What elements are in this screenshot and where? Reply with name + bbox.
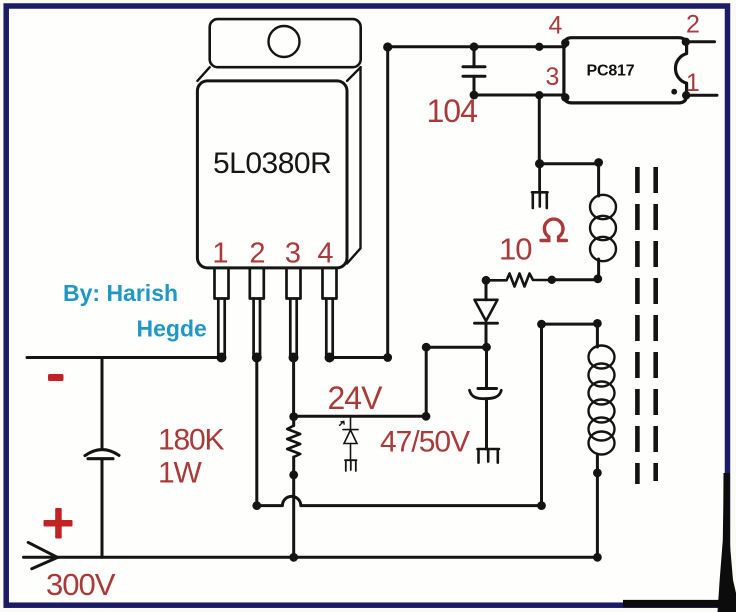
diode D1 lead bottom <box>485 323 488 347</box>
diode D1 lead top <box>485 280 488 300</box>
diode D1 cathode bar <box>475 322 498 325</box>
label minus <box>48 374 64 381</box>
border black right segment <box>723 473 729 612</box>
node pin3 stub <box>535 91 543 99</box>
node secondary winding top <box>593 319 602 328</box>
capacitor C2 47/50V top lead <box>485 347 488 388</box>
capacitor C3 straight plate <box>88 457 113 460</box>
node secondary top junction <box>537 320 546 329</box>
wire left cap branch <box>101 358 104 449</box>
wire vertical from node A down to pin4 rail <box>386 47 389 358</box>
wire optocoupler pin1 <box>687 94 717 97</box>
node pin4 rail <box>325 353 335 363</box>
node cap C1 top <box>470 42 479 51</box>
inductor L1 aux winding <box>597 163 600 196</box>
ground G3 symbol <box>478 449 500 463</box>
node secondary to bottom rail <box>593 553 602 562</box>
node pin2 rail <box>252 353 262 363</box>
node 24V rail left <box>289 412 298 421</box>
svg-text:47/50V: 47/50V <box>380 426 470 459</box>
capacitor C1 104 plates <box>463 67 485 76</box>
wire to secondary winding top <box>542 323 598 326</box>
node pin1 rail <box>217 353 227 363</box>
node U2 polarity dot <box>671 89 677 95</box>
resistor R1 bottom lead to node <box>292 457 295 475</box>
node A top junction <box>383 42 392 51</box>
ground G1 lead <box>538 164 541 193</box>
wire riser up from hop wire <box>540 324 543 506</box>
node aux winding top <box>594 158 603 167</box>
capacitor C2 plate curved <box>470 390 502 398</box>
capacitor C3 bottom lead <box>101 459 104 557</box>
capacitor C1 104 top lead <box>473 47 476 67</box>
node riser top <box>422 343 431 352</box>
IC U1 side depth edge <box>347 67 361 263</box>
IC U1 pin 3 lead <box>287 270 301 357</box>
svg-text:1: 1 <box>212 238 228 270</box>
label ohm symbol <box>541 219 566 240</box>
wire secondary bottom to rail <box>596 473 599 557</box>
svg-text:2: 2 <box>249 238 265 270</box>
svg-text:2: 2 <box>686 11 700 39</box>
diode D1 triangle <box>475 300 498 321</box>
node riser bottom right of pin4 <box>383 353 392 362</box>
resistor R2 10 ohm <box>486 274 552 287</box>
wire feedback node to aux winding top <box>540 162 599 165</box>
node resistor R2 left / diode top <box>482 276 491 285</box>
svg-text:3: 3 <box>285 238 301 270</box>
IC U1 body <box>197 81 347 268</box>
node secondary winding bottom <box>593 469 602 478</box>
node U2 corner pin4 <box>561 39 569 47</box>
node R1 bottom <box>289 471 298 480</box>
wire pin3 drop to 24V rail <box>292 358 295 417</box>
IC U1 tab-body slant right <box>347 67 361 81</box>
node U2 corner pin2 <box>682 38 690 46</box>
node pin2 drop bottom <box>252 501 261 510</box>
node U2 corner pin1 <box>682 91 690 99</box>
capacitor C2 bottom lead <box>485 399 488 449</box>
node R1 bottom rail <box>289 553 298 562</box>
svg-text:PC817: PC817 <box>587 63 635 80</box>
svg-text:104: 104 <box>427 93 478 129</box>
IC U1 pin 4 lead <box>323 270 337 357</box>
transformer core dashed line right <box>653 167 658 481</box>
svg-text:1W: 1W <box>158 457 202 490</box>
node hop wire right <box>537 501 546 510</box>
border black bottom segment <box>623 600 736 608</box>
wire bottom rail <box>24 556 598 559</box>
wire 24V rail <box>294 415 427 418</box>
wire pin2 drop <box>255 358 258 506</box>
capacitor C2 plate straight <box>478 387 497 390</box>
node cap C1 bottom <box>470 91 479 100</box>
wire negative rail to pin1 <box>27 356 222 359</box>
wire optocoupler pin3 line <box>474 94 565 97</box>
resistor R1 180K top lead <box>292 416 295 425</box>
node diode cathode junction <box>482 343 491 352</box>
svg-text:3: 3 <box>546 63 560 91</box>
wire aux winding bottom to resistor R2 <box>552 278 598 281</box>
node resistor R2 right <box>548 276 556 284</box>
wire riser down to 24V rail <box>425 347 428 416</box>
svg-text:10: 10 <box>499 232 532 267</box>
arrow input 300V <box>28 542 57 568</box>
inductor L2 secondary winding <box>596 323 599 347</box>
svg-text:4: 4 <box>317 238 333 270</box>
IC U1 pin 2 lead <box>250 270 264 357</box>
svg-text:24V: 24V <box>328 380 384 416</box>
svg-text:1: 1 <box>686 69 700 97</box>
ground G1 symbol <box>532 192 548 208</box>
wire pin4 of U1 to vertical riser <box>330 356 388 359</box>
node aux winding bottom <box>593 274 602 283</box>
IC U1 5L0380R tab <box>210 19 361 67</box>
node 24V rail right <box>422 412 431 421</box>
svg-text:Hegde: Hegde <box>137 316 207 342</box>
svg-text:By: Harish: By: Harish <box>63 280 178 306</box>
node feedback junction <box>535 159 544 168</box>
capacitor C3 bulk curved plate <box>85 450 119 456</box>
wire drop from pin3 line <box>538 95 541 164</box>
capacitor C1 104 bottom lead <box>473 76 476 95</box>
node stub on pin4 wire <box>535 43 543 51</box>
node U2 corner pin3 <box>561 93 569 101</box>
transformer core dashed line left <box>635 167 640 484</box>
wire top net from node A to optocoupler pin4 <box>388 45 565 48</box>
svg-text:300V: 300V <box>46 567 116 602</box>
IC U1 tab-body slant left <box>197 67 209 81</box>
svg-text:5L0380R: 5L0380R <box>213 147 331 180</box>
label plus <box>44 508 73 539</box>
optocoupler U2 PC817 body <box>564 38 687 103</box>
IC U1 tab hole <box>269 26 300 57</box>
border black corner blob <box>718 473 736 612</box>
IC U1 pin 1 lead <box>215 270 229 357</box>
svg-text:4: 4 <box>549 12 563 40</box>
zener diode Z1 24V <box>340 416 359 471</box>
wire diode node to riser <box>427 346 487 349</box>
node pin3 rail <box>289 353 299 363</box>
wire optocoupler pin2 <box>687 40 715 43</box>
resistor R1 180K zigzag <box>287 426 300 457</box>
wire hop jumper to secondary return <box>257 496 542 505</box>
svg-text:180K: 180K <box>158 424 224 457</box>
ground G2 symbol <box>345 460 357 471</box>
wire R1 node down to bottom rail <box>292 475 295 557</box>
